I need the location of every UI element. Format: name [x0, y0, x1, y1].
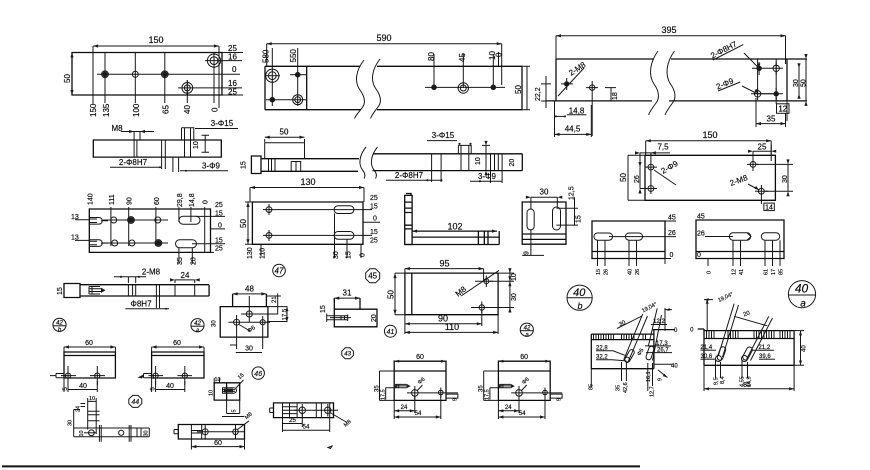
bar outline: [546, 59, 807, 101]
right side labels: [222, 53, 243, 96]
svg-text:40: 40: [79, 383, 87, 390]
section pair: [432, 154, 442, 171]
svg-text:15: 15: [370, 229, 378, 236]
85 dim: [704, 365, 794, 391]
extension lines from labels: [111, 207, 205, 252]
svg-text:41: 41: [739, 269, 745, 275]
leader phi: [239, 325, 250, 332]
svg-text:3-Φ15: 3-Φ15: [432, 131, 455, 140]
svg-text:41: 41: [387, 329, 395, 336]
svg-text:130: 130: [247, 247, 254, 259]
lower holes: [234, 319, 240, 325]
svg-text:30: 30: [793, 79, 800, 87]
svg-text:29,8: 29,8: [177, 193, 184, 207]
svg-text:54: 54: [415, 411, 422, 417]
view: 48 T-part: [212, 285, 289, 353]
svg-text:25: 25: [215, 202, 223, 209]
svg-text:15: 15: [576, 215, 583, 223]
break lines: [649, 51, 675, 115]
svg-text:47: 47: [275, 267, 284, 276]
svg-text:110: 110: [445, 322, 459, 332]
bottom slot labels: [179, 248, 192, 264]
22.2 dim: [541, 76, 551, 108]
lower extension labels: [716, 360, 748, 378]
rack body: [591, 330, 675, 369]
svg-text:9: 9: [524, 251, 531, 255]
svg-text:12,7: 12,7: [650, 386, 656, 397]
svg-text:150: 150: [89, 103, 98, 117]
body: [220, 294, 268, 337]
svg-text:580: 580: [262, 49, 271, 63]
svg-text:0: 0: [360, 253, 367, 257]
svg-text:30: 30: [144, 430, 150, 436]
balloon 42c: [520, 323, 533, 336]
svg-text:0: 0: [707, 271, 713, 274]
svg-text:25: 25: [758, 143, 767, 152]
svg-text:26: 26: [604, 269, 610, 275]
view: clamp part A: [375, 354, 459, 419]
svg-text:10: 10: [475, 157, 482, 165]
view: row2 bar with 50 block: [241, 128, 523, 183]
svg-text:60: 60: [173, 340, 181, 347]
balloon 41: [384, 325, 396, 337]
svg-text:15: 15: [215, 237, 223, 244]
svg-text:95: 95: [439, 259, 449, 269]
view: rack detail 40/a: [690, 281, 815, 391]
svg-text:17,5: 17,5: [381, 389, 387, 400]
svg-text:14,8: 14,8: [189, 193, 196, 207]
upper hole: [246, 311, 252, 317]
holes: [484, 279, 489, 284]
view: 46 part: [209, 367, 265, 417]
svg-text:20: 20: [509, 159, 516, 167]
svg-text:10: 10: [79, 430, 85, 436]
svg-text:50: 50: [63, 74, 72, 83]
svg-text:13: 13: [71, 235, 79, 242]
svg-text:3-Φ9: 3-Φ9: [202, 162, 220, 171]
svg-text:80: 80: [427, 52, 436, 61]
balloon 46: [252, 367, 264, 379]
svg-text:12: 12: [732, 269, 738, 275]
small section lines: [269, 159, 276, 172]
dimension 590: [267, 44, 502, 85]
2-phi8H7 label: [709, 37, 743, 60]
svg-text:0: 0: [232, 65, 237, 74]
base: [405, 231, 500, 244]
svg-text:0: 0: [211, 107, 220, 112]
bar: [261, 154, 522, 172]
svg-text:15: 15: [57, 287, 64, 295]
svg-text:8,4: 8,4: [720, 376, 726, 384]
dimension 395: [556, 36, 786, 64]
bar body: [80, 285, 209, 296]
svg-text:50: 50: [514, 85, 523, 94]
angled 20 dim: [734, 316, 767, 326]
dimension 30: [531, 197, 557, 209]
svg-text:42: 42: [194, 321, 201, 327]
30 angled dim: [617, 316, 642, 328]
svg-text:42: 42: [56, 321, 63, 327]
view: slotted plate left 45: [592, 215, 676, 276]
plate outline: [522, 202, 566, 244]
svg-text:40: 40: [802, 345, 808, 352]
svg-text:85: 85: [743, 382, 751, 389]
svg-text:30: 30: [540, 188, 549, 197]
svg-text:42: 42: [524, 326, 531, 332]
view: slotted square plate: [522, 186, 582, 255]
view: L bracket 102: [405, 194, 500, 245]
svg-text:12,2: 12,2: [653, 319, 665, 325]
svg-text:15: 15: [241, 161, 248, 169]
svg-text:10: 10: [209, 390, 215, 396]
big hole top right: [207, 54, 220, 67]
svg-text:9,5: 9,5: [714, 377, 720, 385]
svg-text:26: 26: [668, 230, 676, 237]
right holes group: [756, 66, 761, 71]
rack body: [698, 329, 794, 365]
svg-text:a: a: [800, 299, 806, 310]
right 40 dim: [794, 331, 804, 366]
svg-text:50: 50: [619, 173, 628, 182]
svg-text:43: 43: [344, 352, 351, 358]
bar outline: [93, 140, 221, 157]
svg-text:24: 24: [181, 271, 190, 280]
right holes: [750, 162, 756, 168]
right dims: [557, 197, 579, 225]
svg-text:42,6: 42,6: [623, 382, 629, 393]
svg-text:15: 15: [596, 269, 602, 275]
svg-text:61: 61: [764, 269, 770, 275]
dimension 150: [646, 141, 772, 161]
balloon 44 octagon: [129, 395, 142, 407]
svg-text:590: 590: [376, 33, 391, 43]
svg-text:44,5: 44,5: [565, 125, 581, 134]
svg-text:50: 50: [387, 290, 396, 299]
svg-text:3-Φ9: 3-Φ9: [478, 172, 496, 181]
dimension 150: [93, 46, 219, 108]
svg-text:46: 46: [254, 371, 262, 378]
svg-text:10: 10: [511, 273, 518, 281]
svg-text:2-M8: 2-M8: [142, 268, 161, 277]
svg-text:9: 9: [658, 378, 664, 381]
svg-text:60: 60: [154, 197, 161, 205]
svg-text:20: 20: [191, 257, 198, 265]
balloon 42a middle: [191, 319, 204, 334]
svg-text:85: 85: [779, 269, 785, 275]
svg-text:24: 24: [401, 405, 408, 411]
svg-text:130: 130: [300, 177, 315, 187]
svg-text:18: 18: [612, 92, 619, 100]
balloon 45 octagon: [366, 269, 380, 283]
angled slot 2: [645, 346, 654, 361]
svg-text:9: 9: [453, 398, 459, 401]
svg-text:25: 25: [228, 88, 237, 97]
view: top-left plate 150x50: [63, 35, 243, 117]
svg-text:25: 25: [370, 238, 378, 245]
bar outline: [265, 66, 522, 109]
svg-text:0: 0: [203, 200, 210, 204]
svg-text:35: 35: [767, 115, 776, 124]
lower extension lines and labels: [622, 362, 653, 391]
right 30/50 dims: [758, 59, 806, 101]
svg-text:16: 16: [228, 53, 237, 62]
holes right: [425, 86, 505, 88]
svg-text:22,2: 22,2: [535, 87, 542, 101]
svg-text:26: 26: [697, 231, 705, 238]
balloon 40/b: [567, 285, 592, 310]
view: top-middle bar 590: [262, 33, 531, 119]
svg-text:135: 135: [102, 103, 111, 117]
left holes: [564, 81, 569, 86]
view: bottom 60 part: [174, 412, 254, 450]
50 block: [265, 143, 305, 159]
right 50 dim: [522, 66, 530, 109]
svg-text:50: 50: [801, 79, 808, 87]
right section lines: [491, 154, 503, 171]
hole extension lines: [105, 53, 214, 104]
balloon 43 octagon: [342, 348, 354, 359]
thread pin: [101, 288, 106, 293]
svg-text:150: 150: [148, 35, 163, 45]
balloon 47: [273, 264, 286, 277]
svg-text:26: 26: [634, 175, 641, 183]
slot extension lines: [335, 214, 362, 259]
bottom dim: [230, 329, 263, 353]
svg-text:30: 30: [245, 346, 253, 353]
svg-text:25: 25: [370, 195, 378, 202]
svg-text:60: 60: [214, 440, 222, 447]
view: top-right bar 395: [535, 25, 808, 137]
svg-text:17,5: 17,5: [283, 308, 289, 320]
svg-text:44: 44: [131, 399, 139, 406]
svg-text:30: 30: [782, 175, 789, 183]
10 dim right: [482, 145, 490, 170]
svg-text:30: 30: [212, 320, 218, 327]
svg-text:150: 150: [702, 130, 717, 140]
svg-text:140: 140: [88, 193, 95, 205]
svg-text:0: 0: [697, 252, 701, 259]
svg-text:0: 0: [495, 52, 504, 57]
svg-text:60: 60: [85, 340, 93, 347]
view: bracket 31: [320, 289, 378, 327]
left holes: [648, 164, 654, 170]
plate outline: [405, 273, 498, 315]
view: 130 plate middle row3: [239, 177, 380, 277]
svg-text:0: 0: [670, 252, 674, 259]
hole lower: [182, 83, 193, 94]
right labels: [363, 221, 380, 223]
view: 95 plate: [384, 259, 533, 339]
svg-text:45: 45: [697, 214, 705, 221]
svg-text:5: 5: [232, 409, 238, 412]
svg-text:395: 395: [661, 25, 676, 35]
bottom border line: [2, 465, 640, 467]
angled slots: [716, 346, 726, 361]
slots: [527, 209, 534, 230]
teeth ticks: [707, 331, 791, 339]
svg-text:550: 550: [289, 49, 298, 63]
plate outline: [89, 209, 210, 252]
svg-text:60: 60: [416, 354, 424, 361]
view: 150 plate right row2: [619, 130, 793, 211]
svg-text:15: 15: [215, 211, 223, 218]
view: 54 bar part: [270, 403, 353, 432]
svg-text:0: 0: [218, 223, 222, 230]
svg-text:30: 30: [333, 251, 340, 259]
svg-text:40: 40: [166, 383, 174, 390]
35 dim: [756, 98, 786, 127]
angled slot 1: [624, 349, 636, 364]
svg-text:54: 54: [303, 425, 310, 431]
dimension 130: [250, 188, 364, 203]
svg-text:15: 15: [320, 305, 327, 313]
slots: [729, 233, 751, 240]
view: shaft with 2-M8: [57, 268, 209, 310]
svg-text:15: 15: [370, 204, 378, 211]
vertical column: [405, 194, 412, 245]
svg-text:0: 0: [373, 216, 377, 223]
svg-text:12: 12: [778, 104, 787, 113]
14 box: [764, 203, 774, 211]
svg-text:25: 25: [289, 418, 296, 424]
hole extension lines: [272, 48, 498, 106]
left cap: [64, 284, 80, 298]
svg-text:90: 90: [127, 197, 134, 205]
top dim: [704, 299, 713, 331]
holes: [266, 207, 272, 213]
svg-text:40: 40: [671, 364, 678, 370]
break lines: [355, 59, 381, 119]
2-phi9 label: [715, 74, 741, 91]
steep lines: [718, 304, 772, 361]
notch block: [291, 162, 301, 172]
inner section lines: [134, 140, 165, 157]
slot extension lines below: [708, 240, 780, 266]
svg-text:21: 21: [272, 296, 278, 303]
svg-text:2-Φ8H7: 2-Φ8H7: [119, 158, 148, 167]
raised block: [182, 128, 194, 157]
svg-text:111: 111: [109, 194, 116, 205]
svg-text:50: 50: [280, 128, 289, 137]
slots: [179, 216, 200, 224]
view: row3 left plate with pins and slots: [71, 193, 225, 265]
svg-text:102: 102: [447, 222, 462, 232]
svg-text:20: 20: [371, 314, 378, 322]
svg-text:2-Φ8H7: 2-Φ8H7: [395, 171, 424, 180]
pins left: [75, 220, 89, 241]
svg-text:45: 45: [668, 215, 676, 222]
pin: [327, 314, 351, 323]
slots: [594, 233, 613, 240]
right raised block: [458, 145, 471, 170]
view: 44 L-part: [68, 396, 150, 442]
10 dim: [202, 135, 210, 152]
svg-text:12,5: 12,5: [569, 186, 576, 200]
svg-text:14: 14: [765, 204, 773, 211]
svg-text:3-Φ15: 3-Φ15: [211, 119, 234, 128]
svg-text:40: 40: [573, 287, 586, 299]
svg-text:13: 13: [71, 214, 79, 221]
18 dim: [605, 88, 616, 101]
svg-text:45: 45: [368, 272, 377, 281]
steep construction lines: [624, 308, 662, 361]
50 dim left: [245, 202, 252, 244]
50 dim left: [395, 273, 405, 315]
slot with thread lines: [223, 388, 237, 393]
svg-text:65: 65: [162, 105, 171, 114]
plate outline: [72, 53, 222, 96]
teeth ticks: [594, 334, 646, 340]
svg-text:17: 17: [771, 269, 777, 275]
30 dim right: [756, 164, 793, 191]
slots: [334, 206, 354, 214]
body: [334, 298, 377, 327]
svg-text:16,1: 16,1: [646, 371, 652, 382]
balloon 40/a: [788, 281, 815, 308]
small reference mark: [328, 446, 332, 449]
bottom 9 dim: [522, 230, 544, 255]
svg-text:17,3: 17,3: [656, 341, 668, 347]
svg-text:26: 26: [635, 269, 641, 275]
svg-text:25: 25: [215, 246, 223, 253]
hole row: [102, 72, 108, 78]
svg-text:50: 50: [239, 219, 248, 228]
holes left: [266, 69, 279, 82]
12 box: [777, 104, 790, 114]
section lines: [128, 285, 194, 296]
plate outline: [645, 155, 775, 200]
left cap: [251, 156, 261, 174]
svg-text:35: 35: [616, 385, 622, 391]
svg-text:15: 15: [346, 251, 353, 259]
view: rack detail 40/b: [567, 285, 678, 397]
right dims 10/30: [487, 269, 514, 311]
svg-text:10: 10: [193, 141, 200, 149]
svg-text:40: 40: [628, 269, 634, 275]
right side labels: [192, 216, 225, 252]
svg-text:30: 30: [68, 420, 74, 426]
svg-text:26,7: 26,7: [657, 348, 669, 354]
view: clamp part B: [479, 354, 563, 419]
26 dim: [640, 167, 646, 188]
svg-text:35: 35: [177, 257, 184, 265]
view: slotted plate right 45: [696, 214, 785, 276]
svg-text:100: 100: [132, 103, 141, 117]
break lines: [360, 147, 378, 179]
svg-text:48: 48: [245, 285, 254, 294]
svg-text:31: 31: [343, 289, 352, 298]
view: 60 plate right: [138, 340, 205, 392]
hole rows: [103, 220, 168, 243]
view: row2 left side bar: [93, 119, 238, 172]
svg-text:7,5: 7,5: [657, 143, 669, 152]
svg-text:30: 30: [511, 293, 518, 301]
slot extension lines below: [598, 240, 666, 266]
right dims: [266, 293, 281, 314]
centerline: [97, 73, 240, 75]
plate outline: [252, 202, 363, 244]
svg-text:b: b: [577, 301, 582, 311]
svg-text:14,8: 14,8: [569, 107, 585, 116]
svg-text:40: 40: [183, 105, 192, 114]
svg-text:40: 40: [795, 282, 809, 296]
balloon 42b left: [53, 318, 66, 333]
50 left dim: [628, 155, 645, 200]
svg-text:45: 45: [458, 53, 467, 62]
view: 60 plate left: [50, 340, 115, 392]
svg-text:Φ8H7: Φ8H7: [130, 300, 152, 309]
